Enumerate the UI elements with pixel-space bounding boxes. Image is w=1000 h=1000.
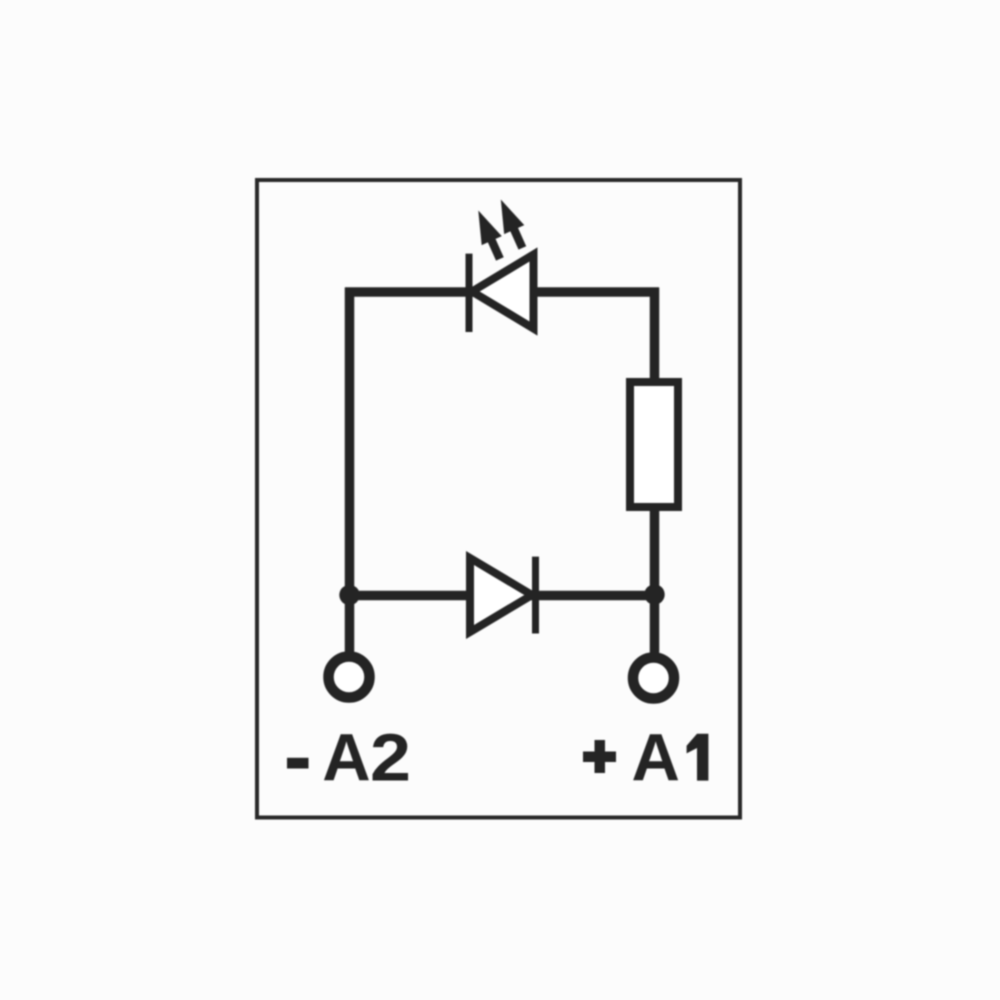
wire top horizontal — [345, 287, 659, 297]
LED arrow 1 — [468, 206, 510, 263]
svg-text:2: 2 — [370, 720, 411, 795]
junction node left — [339, 585, 359, 605]
frame border — [257, 180, 740, 818]
LED D1 triangle — [472, 255, 534, 329]
label A1 digit 1 — [687, 734, 709, 781]
LED D1 cathode bar — [466, 254, 473, 332]
terminal A2 circle — [329, 657, 370, 698]
wire right vertical — [650, 288, 660, 654]
terminal A1 circle — [633, 658, 674, 699]
label plus sign — [583, 740, 616, 773]
wire bottom horizontal — [350, 591, 655, 601]
LED arrow 2 — [491, 195, 533, 252]
wire left vertical — [345, 288, 355, 653]
junction node right — [644, 584, 664, 604]
diode D2 triangle — [470, 558, 532, 632]
resistor R1 — [630, 382, 678, 507]
label minus sign — [287, 758, 309, 769]
svg-text:A: A — [632, 721, 680, 796]
diode D2 cathode bar — [532, 557, 539, 634]
svg-text:A: A — [322, 721, 370, 796]
